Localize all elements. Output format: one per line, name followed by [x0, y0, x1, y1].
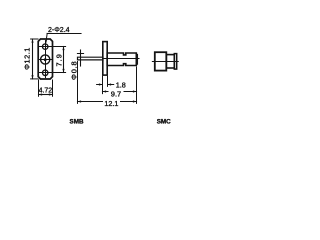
- extension line at flange right face: [107, 76, 109, 86]
- label SMB: [70, 119, 84, 126]
- label 2-dia2.4 with leader: [45, 27, 81, 44]
- center contact dot: [44, 58, 47, 61]
- center bore circle: [41, 55, 50, 64]
- dimension 1.8 (flange thickness): [97, 81, 126, 90]
- svg-text:1.8: 1.8: [116, 81, 126, 90]
- SMC view: centerline: [152, 61, 178, 63]
- side view: center pin: [78, 57, 104, 60]
- svg-text:4.72: 4.72: [39, 88, 53, 95]
- side view: horizontal centerline: [103, 58, 139, 60]
- dimension dia12.1 (flange height): [22, 39, 38, 79]
- side view: connector body with groove: [107, 53, 136, 66]
- extension line at body end: [136, 67, 138, 103]
- extension line at flange left face: [102, 76, 104, 93]
- flange front view outline (SMB jack, chamfered corners): [38, 39, 52, 79]
- SMC view: coupling sleeve: [166, 55, 174, 68]
- top mounting hole: [43, 44, 48, 49]
- center bore crosshair line: [39, 59, 53, 61]
- extension line at pin tip: [77, 62, 79, 104]
- dimension 9.7 (body length): [103, 89, 137, 98]
- svg-text:12.1: 12.1: [104, 99, 118, 108]
- side view: flange plate (edge-on): [103, 42, 107, 76]
- dimension dia0.8 (pin): [70, 50, 84, 80]
- dimension 7.9 (hole spacing): [55, 47, 65, 73]
- dimension 4.72 (flange width): [39, 80, 53, 96]
- svg-text:SMC: SMC: [157, 119, 171, 126]
- dimension 12.1 (overall length): [78, 99, 137, 108]
- svg-text:Φ12.1: Φ12.1: [22, 47, 31, 70]
- side view: body end lip line: [137, 54, 139, 64]
- vertical centerline through holes: [45, 41, 47, 78]
- svg-text:SMB: SMB: [70, 119, 84, 126]
- svg-text:7.9: 7.9: [55, 53, 64, 66]
- bottom mounting hole: [43, 70, 48, 75]
- top mounting hole crosshair line: [39, 46, 66, 48]
- svg-text:9.7: 9.7: [111, 90, 121, 99]
- SMC view: hex body block: [155, 52, 167, 70]
- bottom mounting hole crosshair line: [39, 72, 66, 74]
- label SMC: [157, 119, 171, 126]
- SMC view: end lip: [174, 54, 176, 70]
